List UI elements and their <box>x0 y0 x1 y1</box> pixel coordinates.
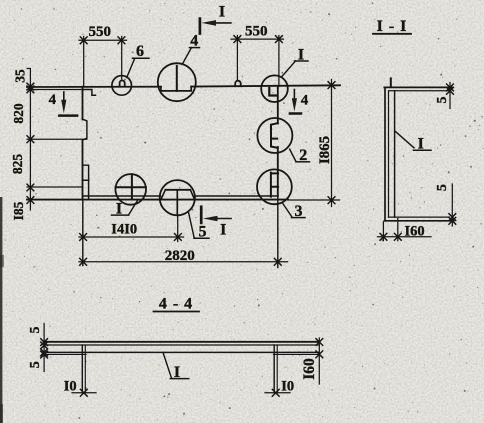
svg-text:I0: I0 <box>281 378 294 394</box>
section cut marker 4 right: label <box>301 93 309 109</box>
svg-text:820: 820 <box>11 103 26 124</box>
svg-text:I - I: I - I <box>377 18 408 35</box>
I-I dim 5 bottom ticks <box>449 214 456 225</box>
detail 4 leader <box>183 48 192 64</box>
detail 3 interior: hinge plate <box>271 173 278 197</box>
svg-text:5: 5 <box>435 184 450 191</box>
4-4 dim 160 label <box>301 358 318 380</box>
label 825 <box>10 154 25 175</box>
left edge notch middle <box>83 165 89 180</box>
section 4-4 title <box>154 296 200 313</box>
detail 1 leader <box>282 61 296 77</box>
4-4 dim 10 left line and tick <box>72 389 96 396</box>
detail 6 label <box>133 43 150 60</box>
tick at top edge (35 pair) <box>27 83 34 93</box>
detail circle 4 <box>158 63 196 101</box>
top edge inner line (35 offset) <box>27 89 83 91</box>
I-I dim 160 ticks <box>380 233 401 240</box>
svg-text:5: 5 <box>28 361 43 368</box>
label 2820 <box>165 248 195 264</box>
dim 2820 ticks <box>80 258 282 265</box>
4-4 leader I <box>163 353 171 378</box>
section cut marker I top: label <box>219 4 225 21</box>
I-I dim 160 label <box>405 224 425 240</box>
svg-text:550: 550 <box>245 24 268 40</box>
section cut marker 4 left: arrow down <box>61 92 66 113</box>
section cut marker I top: thick stroke <box>199 19 202 34</box>
dim 550 right line <box>231 38 284 40</box>
section cut marker I bottom: arrow <box>203 216 231 222</box>
dim 550 right ticks <box>234 36 282 43</box>
I-I web outer <box>384 87 386 220</box>
svg-text:I60: I60 <box>405 224 425 240</box>
detail circle 3 <box>257 169 292 204</box>
I-I dim 5 top label <box>435 97 450 104</box>
svg-text:550: 550 <box>88 24 111 40</box>
detail 6 interior: lifting loop <box>120 80 125 86</box>
dim 550 left line <box>79 39 127 41</box>
dim 1865 ticks <box>328 82 335 204</box>
svg-text:I0: I0 <box>64 378 77 394</box>
top-left corner flange step <box>83 90 96 96</box>
bottom edge right extension to 1865 dim <box>288 199 340 201</box>
4-4 dim 5 ticks <box>41 339 48 358</box>
detail 4 interior: rib line <box>176 66 178 91</box>
scan edge smudge left <box>0 197 4 423</box>
I-I leader label I <box>414 136 432 153</box>
extension line y139 to dim chain <box>27 138 87 140</box>
I-I dim 5 top line <box>449 83 451 109</box>
4-4 dim 5 line left <box>43 324 45 372</box>
svg-text:4: 4 <box>301 93 309 109</box>
svg-text:4 - 4: 4 - 4 <box>159 296 193 313</box>
4-4 flange line upper <box>44 351 319 353</box>
section cut marker 4 right: arrow down <box>292 90 297 112</box>
dim 550 left extension lines <box>84 37 122 87</box>
detail cross interior <box>116 174 146 199</box>
I-I deck sheet line <box>394 91 396 217</box>
detail 3 leader <box>283 203 292 217</box>
svg-text:I60: I60 <box>301 358 318 380</box>
detail 2 leader <box>290 149 296 161</box>
bottom edge outer line <box>27 199 288 201</box>
dim 550 right extension lines <box>237 36 279 87</box>
dim 550 left ticks <box>80 37 125 44</box>
section cut marker 4 left: bar <box>59 114 77 117</box>
svg-text:I865: I865 <box>317 136 333 164</box>
4-4 dim 10 right line and tick <box>265 389 290 396</box>
section cut marker I top: arrow <box>202 20 231 26</box>
detail circle 6 <box>112 76 132 96</box>
I-I loop stub <box>390 78 392 87</box>
I-I web inner <box>388 91 390 217</box>
lifting loop right on top edge <box>235 81 241 86</box>
section cut marker I bottom: label <box>220 222 226 239</box>
dim 1410 right extension <box>177 215 179 241</box>
detail 5 interior: support plate <box>161 190 195 215</box>
section cut marker 4 right: bar <box>290 112 301 115</box>
detail circle 5 <box>160 180 195 215</box>
I-I bottom flange outer <box>384 220 454 222</box>
detail circle 1 <box>261 75 288 102</box>
svg-text:I: I <box>220 222 226 239</box>
dim 1410 line <box>79 236 184 238</box>
left edge line <box>82 87 84 200</box>
label 550 right <box>245 24 268 40</box>
left dimension chain line <box>27 69 30 211</box>
detail 2 interior: lock profile <box>271 123 278 148</box>
detail circle 2 <box>257 118 292 153</box>
right edge extension down to 2820 dim <box>277 196 279 268</box>
label 550 left <box>88 24 111 40</box>
I-I dim 5 top ticks <box>447 84 454 94</box>
detail 6 leader <box>127 58 135 77</box>
detail 5 label <box>194 224 209 241</box>
label 1410 <box>111 222 137 238</box>
4-4 dim 10 right label <box>281 378 294 394</box>
detail cross label I <box>112 201 129 218</box>
I-I top flange inner <box>389 90 450 92</box>
detail 1 label <box>295 47 309 64</box>
4-4 deck sheet bottom line <box>44 344 319 346</box>
left edge notch bottom <box>83 180 89 199</box>
section I-I title <box>373 18 411 35</box>
svg-text:35: 35 <box>13 69 28 83</box>
detail 5 leader <box>189 213 195 238</box>
4-4 leader label I <box>170 364 188 381</box>
tick at y139 <box>27 136 34 143</box>
label 1865 <box>317 136 333 164</box>
label 35 <box>13 69 28 83</box>
dim 1410 ticks <box>80 234 182 241</box>
tick at y200 <box>27 197 34 204</box>
label 185 <box>11 201 26 220</box>
4-4 flange line lower segments <box>44 353 319 355</box>
svg-text:2820: 2820 <box>165 248 195 264</box>
svg-text:4: 4 <box>49 92 57 108</box>
detail 2 label <box>296 147 310 164</box>
detail 4 interior: edge recess <box>161 87 191 91</box>
detail 4 label <box>190 33 200 50</box>
dim 1865 line <box>331 80 333 207</box>
I-I dim 5 bottom line <box>451 184 453 226</box>
dim 2820 line <box>79 261 288 263</box>
svg-text:I85: I85 <box>11 201 26 220</box>
4-4 left leg web <box>82 345 85 393</box>
left edge notch upper <box>83 119 87 140</box>
4-4 dim 5 label lower <box>28 361 43 368</box>
4-4 deck sheet top line <box>44 341 319 343</box>
I-I leader I <box>396 132 415 148</box>
tick at y187 <box>27 184 34 191</box>
left edge extension down to 2820 dim <box>82 200 84 266</box>
detail circle cross (weld detail) <box>115 174 146 205</box>
I-I bottom flange inner <box>389 216 450 218</box>
detail 3 label <box>292 203 306 220</box>
I-I top flange outer <box>384 86 452 88</box>
detail cross leader <box>129 200 138 215</box>
svg-text:825: 825 <box>10 154 25 175</box>
right edge line <box>277 86 279 196</box>
top edge line (outer) <box>27 85 340 87</box>
4-4 right leg web <box>274 345 277 393</box>
4-4 dim 160 line <box>318 338 320 384</box>
svg-text:5: 5 <box>435 97 450 104</box>
I-I dim 160 extensions <box>383 219 397 241</box>
bottom edge inner line <box>83 195 278 197</box>
svg-text:5: 5 <box>28 327 43 334</box>
label 820 <box>11 103 26 124</box>
detail 1 interior: weld L-mark <box>269 88 276 96</box>
section cut marker 4 left: label <box>49 92 57 108</box>
I-I dim 5 bottom label <box>435 184 450 191</box>
I-I dim 160 line <box>378 236 432 238</box>
svg-text:I: I <box>219 4 225 21</box>
extension line y187 to dim chain <box>27 186 83 188</box>
4-4 dim 5 label upper <box>28 327 43 334</box>
4-4 dim 160 ticks <box>316 339 323 358</box>
svg-text:I4I0: I4I0 <box>111 222 137 238</box>
4-4 dim 10 left label <box>64 378 77 394</box>
section cut marker I bottom: thick stroke <box>200 207 203 223</box>
